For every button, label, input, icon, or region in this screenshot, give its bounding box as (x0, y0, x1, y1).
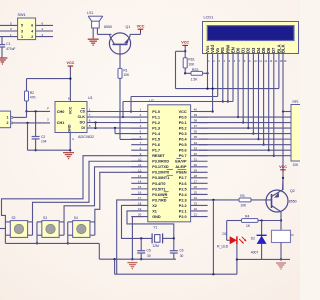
svg-text:25: 25 (194, 191, 198, 195)
svg-text:P0.4: P0.4 (179, 138, 188, 142)
svg-text:DO: DO (80, 121, 86, 125)
svg-text:4: 4 (31, 29, 33, 33)
svg-text:CH1: CH1 (57, 121, 65, 125)
svg-text:S4: S4 (74, 216, 78, 220)
svg-text:1: 1 (7, 116, 9, 120)
svg-text:4007: 4007 (251, 251, 259, 255)
svg-text:16: 16 (138, 191, 142, 195)
svg-text:P2.7: P2.7 (179, 176, 187, 180)
svg-text:1.5K: 1.5K (191, 78, 199, 82)
svg-text:P1.6: P1.6 (152, 143, 160, 147)
svg-text:1K: 1K (246, 224, 251, 228)
svg-text:P2.6: P2.6 (179, 182, 187, 186)
svg-text:CH0: CH0 (57, 110, 65, 114)
svg-text:32: 32 (194, 152, 198, 156)
svg-text:P3.7/RD: P3.7/RD (152, 198, 167, 202)
svg-text:VCC: VCC (179, 110, 187, 114)
svg-text:BLK: BLK (280, 44, 285, 53)
svg-text:GND: GND (68, 124, 72, 132)
svg-text:SW1: SW1 (18, 13, 26, 17)
svg-text:10K: 10K (240, 203, 247, 207)
svg-text:5: 5 (21, 24, 23, 28)
svg-text:10K: 10K (188, 62, 195, 66)
svg-text:P3.6/WR: P3.6/WR (152, 193, 167, 197)
svg-text:X2: X2 (152, 204, 157, 208)
svg-text:D1: D1 (223, 232, 227, 236)
svg-text:30: 30 (180, 254, 184, 258)
svg-text:CLK: CLK (78, 115, 86, 119)
svg-text:S3: S3 (43, 216, 47, 220)
svg-text:R3: R3 (240, 194, 244, 198)
svg-text:D2: D2 (251, 237, 255, 241)
svg-text:104: 104 (41, 140, 47, 144)
svg-text:P0.7: P0.7 (179, 154, 187, 158)
svg-text:RESET: RESET (152, 154, 165, 158)
svg-text:P3.0/RXD: P3.0/RXD (152, 160, 169, 164)
svg-text:P1.3: P1.3 (152, 126, 160, 130)
svg-text:P1.0: P1.0 (152, 110, 160, 114)
svg-text:P2.2: P2.2 (179, 204, 187, 208)
svg-text:VCC: VCC (69, 106, 73, 114)
svg-text:PSEN: PSEN (176, 171, 187, 175)
svg-text:C1: C1 (6, 42, 10, 46)
svg-text:37: 37 (194, 124, 198, 128)
svg-text:CS: CS (80, 110, 86, 114)
svg-text:P2.4: P2.4 (179, 193, 188, 197)
svg-text:DI: DI (81, 126, 85, 130)
svg-text:VCC: VCC (137, 24, 145, 28)
svg-text:6: 6 (31, 24, 33, 28)
svg-text:15: 15 (138, 185, 142, 189)
svg-text:C6: C6 (179, 248, 183, 252)
svg-text:C5: C5 (147, 248, 151, 252)
svg-text:P3.1/TXD: P3.1/TXD (152, 165, 169, 169)
svg-text:8550: 8550 (289, 200, 297, 204)
svg-text:23: 23 (194, 202, 198, 206)
svg-text:Q1: Q1 (126, 25, 131, 29)
svg-text:P0.5: P0.5 (179, 143, 187, 147)
svg-text:36: 36 (194, 130, 198, 134)
svg-text:38: 38 (194, 119, 198, 123)
svg-text:21: 21 (194, 213, 198, 217)
svg-text:470uF: 470uF (6, 47, 15, 51)
svg-text:10K: 10K (123, 73, 130, 77)
svg-text:Y1: Y1 (153, 226, 157, 230)
svg-text:26: 26 (194, 185, 198, 189)
svg-text:P3.2/INT0: P3.2/INT0 (152, 171, 169, 175)
svg-text:27: 27 (194, 179, 198, 183)
svg-text:VCC: VCC (279, 165, 287, 169)
svg-text:VCC: VCC (67, 61, 75, 65)
svg-text:RP1: RP1 (293, 100, 299, 104)
svg-text:39: 39 (194, 113, 198, 117)
svg-text:P0.1: P0.1 (179, 121, 187, 125)
svg-text:S2: S2 (11, 216, 15, 220)
svg-text:8550: 8550 (104, 25, 112, 29)
svg-text:40: 40 (194, 108, 198, 112)
svg-text:47K: 47K (30, 96, 37, 100)
svg-text:P1.7: P1.7 (152, 149, 160, 153)
svg-text:R2: R2 (30, 91, 34, 95)
svg-text:R_LED: R_LED (217, 245, 229, 249)
svg-text:2: 2 (7, 121, 9, 125)
svg-text:ADC0832: ADC0832 (78, 135, 94, 139)
svg-text:12M: 12M (152, 244, 159, 248)
svg-text:P1.1: P1.1 (152, 115, 160, 119)
svg-text:P2.5: P2.5 (179, 187, 187, 191)
svg-text:EA/VP: EA/VP (175, 160, 187, 164)
svg-text:P0.6: P0.6 (179, 149, 187, 153)
svg-text:P1.4: P1.4 (152, 132, 161, 136)
svg-text:P2.3: P2.3 (179, 198, 187, 202)
svg-text:35: 35 (194, 135, 198, 139)
svg-text:28: 28 (194, 174, 198, 178)
svg-text:22: 22 (194, 207, 198, 211)
svg-text:ALE/P: ALE/P (175, 165, 187, 169)
svg-text:P0.3: P0.3 (179, 132, 187, 136)
svg-text:U1: U1 (88, 96, 93, 100)
svg-text:RS1: RS1 (188, 58, 195, 62)
svg-text:P3.5/T1: P3.5/T1 (152, 187, 165, 191)
svg-text:14: 14 (138, 179, 142, 183)
svg-text:P1.2: P1.2 (152, 121, 160, 125)
svg-text:29: 29 (194, 168, 198, 172)
svg-text:24: 24 (194, 196, 198, 200)
svg-text:P3.4/T0: P3.4/T0 (152, 182, 165, 186)
svg-text:Q2: Q2 (290, 189, 295, 193)
svg-text:13: 13 (138, 174, 142, 178)
svg-text:P3.3/INT1: P3.3/INT1 (152, 176, 169, 180)
svg-text:1: 1 (21, 35, 23, 39)
svg-text:30: 30 (147, 254, 151, 258)
svg-text:LCD1: LCD1 (204, 16, 214, 20)
svg-text:33: 33 (194, 146, 198, 150)
svg-text:P1.5: P1.5 (152, 138, 160, 142)
svg-text:P2.0: P2.0 (179, 215, 187, 219)
svg-text:2: 2 (31, 35, 33, 39)
svg-text:P2.1: P2.1 (179, 209, 187, 213)
svg-text:30: 30 (194, 163, 198, 167)
svg-text:10K: 10K (293, 163, 300, 167)
svg-text:3: 3 (21, 29, 23, 33)
svg-text:R1: R1 (123, 68, 127, 72)
svg-text:31: 31 (194, 157, 198, 161)
svg-text:P0.0: P0.0 (179, 115, 187, 119)
svg-text:X1: X1 (152, 209, 157, 213)
svg-text:GND: GND (152, 215, 161, 219)
svg-text:LS1: LS1 (87, 11, 93, 15)
svg-text:RS2: RS2 (192, 68, 199, 72)
svg-text:P0.2: P0.2 (179, 126, 187, 130)
svg-text:VCC: VCC (181, 41, 189, 45)
svg-text:34: 34 (194, 141, 198, 145)
svg-text:R4: R4 (245, 215, 249, 219)
svg-text:C2: C2 (41, 135, 45, 139)
